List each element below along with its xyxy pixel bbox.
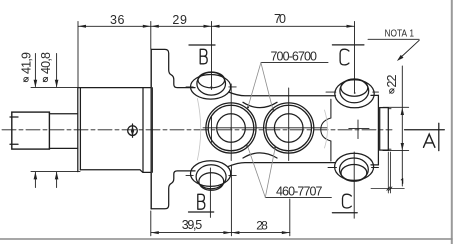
port C bottom tick [328, 167, 379, 169]
port B bottom boss mid [196, 165, 226, 189]
bottom dimension line [151, 232, 290, 234]
dia extension bottom [31, 171, 80, 173]
port B axis through body [211, 117, 213, 143]
barrel collar line [142, 88, 144, 173]
body top deck line [229, 92, 336, 96]
ext line x78 [77, 22, 79, 88]
circlip tick bottom [10, 143, 18, 145]
port C top boss outer [335, 80, 374, 108]
dia 41,9 leader bottom [34, 172, 38, 188]
arrows top dim [78, 25, 355, 28]
boot rectangle (left end) [12, 112, 50, 149]
label 460-7707 underline [265, 196, 331, 198]
port B bottom boss face [199, 173, 224, 191]
dia 41,9 leader top [34, 54, 38, 88]
bore circle 1 inner [217, 114, 246, 143]
bore circle 1 outer [206, 103, 256, 153]
dia 22 ext top [383, 106, 409, 108]
label dia 41,9 [20, 52, 34, 82]
section B bottom bar [189, 211, 214, 213]
note leader [397, 40, 419, 61]
right block bottom edge [371, 164, 378, 166]
port B bottom boss outer [191, 161, 231, 187]
end cap lip top [388, 108, 391, 110]
right block top edge [371, 94, 378, 96]
flange hub line [152, 88, 154, 173]
end cap [380, 108, 389, 151]
port C top boss face [341, 79, 368, 96]
dia extension top [31, 87, 78, 89]
port C bottom boss outer [335, 153, 374, 180]
label dia 22 [385, 74, 399, 93]
port C top tick [326, 91, 379, 93]
dia 22 dim line [401, 66, 404, 186]
body web between circles top [243, 102, 277, 107]
barrel mouth step [79, 88, 81, 170]
ghost line left of C [325, 110, 328, 148]
port B top boss face [198, 72, 225, 88]
datum target symbol [128, 124, 138, 137]
flange left face [150, 49, 152, 208]
right block face [377, 95, 379, 164]
ext line x150.5 [150, 22, 152, 50]
section C bottom axis [353, 152, 355, 218]
label dia 40,8 [39, 52, 53, 82]
arrows bottom dim [151, 231, 290, 234]
svg-text:36: 36 [110, 13, 125, 27]
section C top bar [332, 44, 364, 46]
dia 22 ext bottom [383, 150, 409, 152]
bore circle 2 crosshair [288, 88, 290, 161]
dim 1 line [371, 187, 404, 190]
port C top boss mid [340, 79, 369, 103]
svg-text:41,9: 41,9 [20, 52, 34, 74]
port B top boss outer [191, 75, 231, 100]
flange plate [151, 49, 195, 87]
note underline [368, 38, 419, 40]
body web between circles bottom [243, 153, 277, 158]
svg-text:39,5: 39,5 [182, 218, 203, 232]
svg-text:22: 22 [385, 74, 399, 87]
dia 40,8 leader top [55, 54, 59, 88]
port B top boss mid [197, 72, 226, 95]
section A letter [424, 134, 435, 147]
ghost line above B bottom boss [197, 129, 200, 160]
ghost line under B top boss [197, 99, 200, 130]
ext line circle1 [230, 165, 232, 236]
port C bottom boss mid [340, 158, 369, 181]
leader 460-7707 right [265, 147, 275, 197]
barrel left face [77, 88, 79, 172]
center dots [211, 86, 356, 148]
barrel top line [78, 87, 151, 89]
bore circle 2 inner [274, 114, 303, 143]
section A tick [438, 123, 440, 150]
svg-text:460-7707: 460-7707 [276, 184, 323, 198]
section C top letter [340, 49, 349, 65]
bore circle 2 ring [266, 105, 312, 151]
circlip tick top [10, 116, 18, 118]
svg-text:29: 29 [172, 13, 187, 27]
bore circle 2 outer [264, 103, 314, 153]
section C bottom letter [343, 194, 352, 208]
svg-text:70: 70 [274, 12, 286, 26]
neck cylinder [49, 114, 77, 149]
C pad waist edge [321, 99, 331, 161]
ext line 28 right [289, 199, 291, 236]
port C bottom boss face [341, 165, 367, 182]
section C top axis [354, 22, 356, 94]
bore circle 1 crosshair [230, 84, 232, 161]
svg-text:NOTA 1: NOTA 1 [385, 28, 415, 39]
top dimension line [78, 25, 355, 27]
bores horizontal crosshair [203, 127, 328, 129]
dim 1 ext lines [388, 152, 390, 193]
leader 700-6700 right [261, 63, 273, 109]
section B bottom letter [198, 194, 205, 209]
label 700-6700 underline [261, 62, 328, 64]
port B bottom tick [186, 175, 236, 177]
body bottom deck line [229, 163, 336, 167]
dim 1 text [401, 179, 403, 184]
svg-text:40,8: 40,8 [39, 52, 53, 74]
section B top letter [200, 49, 207, 64]
scan border bottom [0, 238, 452, 240]
port B top tick [186, 86, 236, 88]
svg-text:700-6700: 700-6700 [271, 49, 318, 63]
leader 460-7707 left [248, 146, 266, 197]
svg-text:28: 28 [256, 218, 268, 232]
main centerline [2, 129, 392, 131]
section A line [405, 129, 445, 131]
section B top bar [189, 44, 215, 46]
bore circle 1 ring [208, 105, 254, 151]
ext line flange bottom [150, 211, 152, 236]
section C bottom bar [332, 212, 357, 214]
leader 700-6700 left [248, 63, 261, 107]
port C axis cross [349, 120, 369, 139]
scan border right [451, 0, 453, 244]
end cap lip bottom [388, 148, 391, 150]
dia 40,8 leader bottom [55, 172, 59, 188]
section B top axis [211, 22, 213, 90]
barrel bottom line [80, 170, 150, 173]
section B bottom axis [209, 168, 211, 217]
